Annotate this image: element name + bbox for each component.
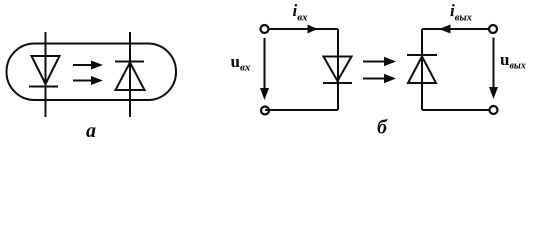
output photodiode cathode bar <box>407 54 437 56</box>
output left wire through photodiode <box>421 29 423 110</box>
output top terminal <box>489 25 497 33</box>
voltage arrow u_vx <box>260 38 269 100</box>
LED cathode lead <box>129 32 131 117</box>
coupling arrow 2 <box>363 74 396 83</box>
current arrow i_vyx <box>439 25 451 34</box>
LED anode lead <box>45 32 47 117</box>
photodiode cathode bar <box>115 61 144 63</box>
output bottom terminal <box>490 106 498 114</box>
light arrow 1 <box>73 61 103 70</box>
voltage arrow u_vyx <box>489 38 498 100</box>
input bottom terminal <box>261 107 269 115</box>
svg-text:uвх: uвх <box>231 52 251 74</box>
output bottom wire <box>422 109 490 111</box>
optocoupler body <box>7 44 177 101</box>
input diode cathode bar <box>323 82 352 84</box>
current arrow i_vx <box>308 25 318 34</box>
photodiode triangle <box>116 63 145 91</box>
output top wire <box>422 28 489 30</box>
svg-text:iвх: iвх <box>293 1 309 24</box>
input diode triangle <box>324 57 352 82</box>
svg-text:uвых: uвых <box>500 50 526 72</box>
LED triangle <box>32 56 60 84</box>
coupling arrow 1 <box>363 57 396 66</box>
input bottom wire <box>265 109 338 111</box>
svg-text:iвых: iвых <box>450 1 472 24</box>
input right wire through diode <box>337 29 339 110</box>
input top terminal <box>261 25 269 33</box>
input top wire <box>269 28 339 30</box>
svg-text:б: б <box>377 117 388 139</box>
output photodiode triangle <box>408 57 436 84</box>
light arrow 2 <box>73 76 103 85</box>
svg-text:а: а <box>86 120 96 142</box>
LED cathode bar <box>29 86 58 88</box>
